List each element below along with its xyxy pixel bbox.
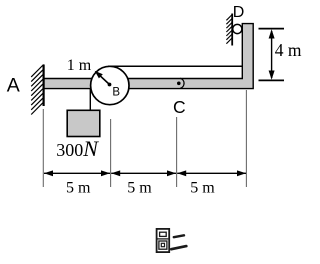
- svg-text:B: B: [112, 86, 120, 98]
- svg-text:D: D: [233, 4, 245, 21]
- bottom dimension line segment C-end: [177, 172, 246, 174]
- 4 m dimension: top tick: [259, 28, 285, 30]
- wall line at D: [231, 14, 233, 46]
- svg-text:300N: 300N: [56, 136, 99, 161]
- 4 m dimension: arrow shaft: [271, 31, 273, 78]
- extension line below A: [42, 109, 44, 187]
- rope from pulley top to vertical member: [108, 65, 244, 67]
- pulley radius arrow: [99, 74, 110, 84]
- caption glyph 圖: [157, 229, 170, 252]
- wall at D (hatching): [226, 15, 232, 44]
- caption glyph 二: [171, 235, 186, 249]
- svg-text:A: A: [7, 75, 20, 97]
- pin at C (arc): [180, 78, 184, 88]
- wall at A (hatching): [31, 65, 43, 115]
- bottom dimension line segment B-C: [111, 172, 176, 174]
- svg-text:5 m: 5 m: [190, 180, 215, 197]
- roller at D: [233, 24, 242, 33]
- svg-text:1 m: 1 m: [67, 57, 92, 74]
- 4 m dimension: bottom tick: [259, 79, 285, 81]
- svg-text:4 m: 4 m: [275, 40, 302, 60]
- extension line below B: [110, 119, 112, 187]
- wall line at A: [42, 65, 44, 107]
- pulley B (circle): [91, 66, 129, 104]
- extension line below right end: [245, 90, 247, 187]
- bottom dimension line segment A-B: [44, 172, 110, 174]
- rope from pulley to weight: [89, 84, 91, 111]
- svg-text:5 m: 5 m: [127, 180, 152, 197]
- pulley center dot: [108, 83, 112, 87]
- L-shaped beam ABC-D (gray member): [44, 24, 254, 89]
- extension line below C: [176, 117, 178, 187]
- weight block 300N: [67, 110, 100, 136]
- svg-text:5 m: 5 m: [66, 180, 91, 197]
- pin at C (dot): [177, 82, 181, 86]
- svg-text:C: C: [173, 97, 186, 117]
